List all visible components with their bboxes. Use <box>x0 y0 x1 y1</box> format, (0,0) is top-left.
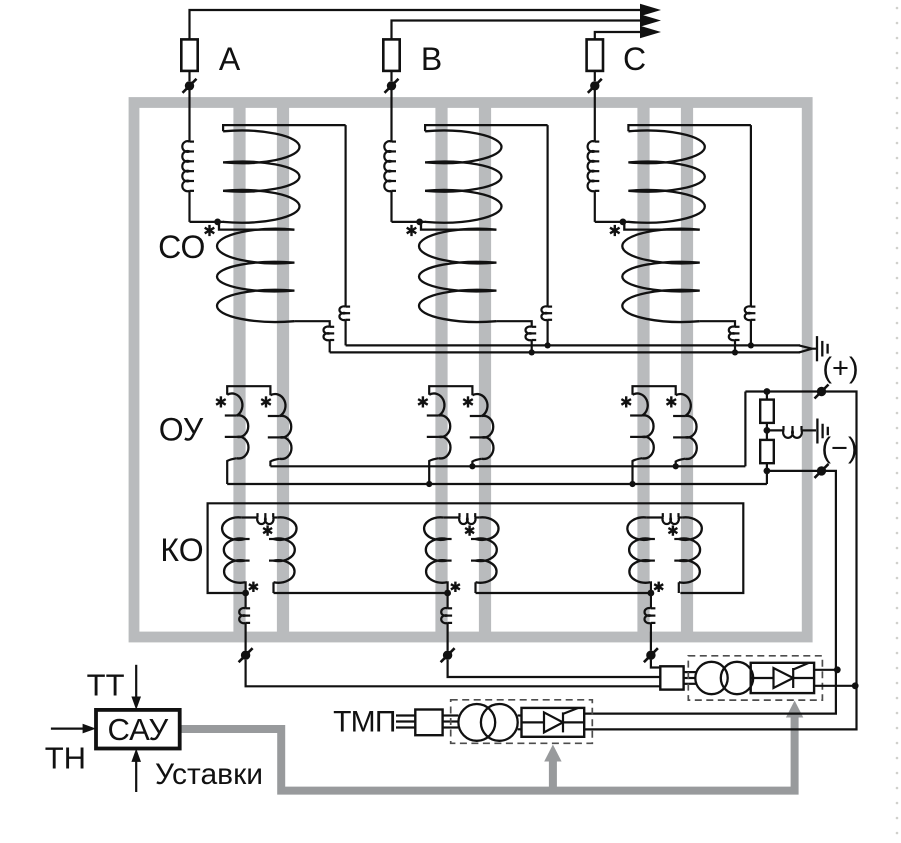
KO B right coil bottom lead <box>474 582 476 593</box>
svg-text:САУ: САУ <box>107 712 168 747</box>
bus junction C upper <box>748 342 754 348</box>
dashed enclosure TMP rectifier <box>451 700 593 744</box>
tap disconnect node A <box>239 648 253 662</box>
polarity mark KO C top <box>668 525 677 535</box>
coil on CO C lower return <box>729 327 735 341</box>
polarity mark CO B <box>407 225 417 236</box>
thyristor symbol VS1 <box>751 663 814 688</box>
OY B right coil bottom lead <box>472 459 481 467</box>
polarity mark CO A <box>205 225 215 236</box>
polarity mark CO C <box>610 225 620 236</box>
rectifier output lower wire <box>814 685 855 687</box>
svg-text:С: С <box>623 41 646 77</box>
KO A tap wire lower <box>245 623 247 651</box>
KO C top wire right part <box>679 516 683 518</box>
transformer T1 circle 2 <box>721 662 753 694</box>
series coil on phase C feed <box>588 141 595 191</box>
wire CO C junction row <box>595 221 630 223</box>
ground symbol (neutral) <box>816 336 818 361</box>
phase A supply line to arrow <box>190 10 641 39</box>
wire phase A feed down <box>188 191 190 222</box>
polarity mark OY A right <box>261 396 271 407</box>
resistor R1 <box>760 400 774 423</box>
OY B left coil <box>429 393 450 458</box>
KO series loop rectangle <box>208 503 744 593</box>
wire CO B upper return from top bar <box>546 125 548 307</box>
OY B right coil <box>472 394 493 459</box>
KO B tap wire upper <box>447 593 449 608</box>
KO A top wire right part <box>273 516 277 518</box>
wire CO B upper return to bus <box>546 320 548 346</box>
wire CO B jog to lower half <box>421 222 496 230</box>
plus output line <box>584 392 856 730</box>
wire CO A upper return to bus <box>345 320 347 346</box>
core leg 2 <box>277 104 289 636</box>
tap wire B to rectifier <box>448 660 661 677</box>
KO winding C left coil <box>627 517 650 582</box>
thyristor box VS1 <box>751 663 814 693</box>
phase C supply line to arrow <box>595 32 640 39</box>
wire node C into core <box>594 90 596 142</box>
transformer T2 circle 1 <box>458 704 495 741</box>
fuse FA (phase A) <box>181 39 197 71</box>
coil on KO C top wire <box>662 518 678 525</box>
svg-text:Уставки: Уставки <box>155 758 263 791</box>
TMP input triple line <box>396 714 415 716</box>
wire CO B lower return <box>496 321 531 327</box>
KO A left coil bottom lead <box>244 582 247 593</box>
voltage divider chain wire <box>766 392 768 471</box>
OY C left coil bottom lead <box>633 458 643 484</box>
coil on CO B upper return <box>541 306 547 320</box>
wire node A into core <box>188 90 190 142</box>
CO working winding phase C lower half <box>622 229 699 322</box>
series coil on phase B feed <box>384 141 391 191</box>
wire CO A lower return to bus <box>329 340 331 352</box>
TMP connector pair <box>518 714 522 716</box>
coil on KO C tap <box>644 608 650 623</box>
wire CO C upper return to bus <box>750 320 752 346</box>
KO winding B left coil <box>424 517 447 582</box>
core leg 1 <box>233 104 245 636</box>
polarity mark OY C right <box>667 396 677 407</box>
junction resistor midpoint <box>764 427 771 434</box>
OY control winding A top bracket <box>227 386 270 395</box>
rectifier input box <box>660 666 683 689</box>
polarity mark OY A left <box>216 396 226 407</box>
KO A top wire <box>241 516 257 518</box>
phase A arrowhead <box>640 4 661 17</box>
bus junction B upper <box>545 342 551 348</box>
fuse FC (phase C) <box>587 39 603 71</box>
coil on CO B lower return <box>526 327 532 341</box>
svg-text:А: А <box>219 41 241 77</box>
control branch to TMP rectifier <box>549 761 557 791</box>
phase B supply line to arrow <box>392 21 641 40</box>
polarity mark KO A top <box>263 525 272 535</box>
svg-text:ОУ: ОУ <box>159 412 204 448</box>
plus terminal node <box>815 385 829 399</box>
thyristor symbol VS2 <box>522 708 585 732</box>
page edge dots <box>896 7 899 835</box>
wire fuse B to node <box>390 71 392 81</box>
polarity mark KO A bottom <box>249 582 258 592</box>
CO working winding phase B top bar <box>425 125 547 131</box>
KO B right coil <box>476 517 499 582</box>
neutral arrow to ground <box>799 345 816 352</box>
wire coil to ground <box>802 429 817 431</box>
OY bus junction B right <box>469 463 475 469</box>
transformer T2 circle 2 <box>481 704 518 741</box>
phase C arrowhead <box>640 26 661 39</box>
minus output line <box>584 471 836 714</box>
wire CO C upper return from top bar <box>750 125 752 307</box>
wire fuse A to node <box>188 71 190 81</box>
setpoint input arrow <box>135 761 137 793</box>
tap disconnect node B <box>441 648 455 662</box>
OY A right coil bottom lead <box>270 459 279 467</box>
CO working winding phase C upper half <box>628 131 704 223</box>
KO B tap wire lower <box>447 623 449 651</box>
OY C left coil <box>633 393 654 458</box>
core leg 6 <box>681 104 693 636</box>
phase B arrowhead <box>640 14 661 27</box>
coil on KO B top wire <box>459 518 475 525</box>
wire CO A lower return <box>294 321 329 327</box>
TMP connector triple line <box>443 714 459 716</box>
wire midpoint to ground <box>767 429 784 431</box>
tap wire A to rectifier <box>246 660 661 686</box>
OY C right coil bottom lead <box>676 459 685 467</box>
junction resistor top <box>764 388 771 395</box>
coil on CO C upper return <box>745 306 751 320</box>
wire CO C lower return to bus <box>734 340 736 352</box>
polarity mark KO C bottom <box>654 582 663 592</box>
polarity mark OY B right <box>463 396 473 407</box>
core leg 4 <box>479 104 491 636</box>
OY bus junction C left <box>629 481 635 487</box>
OY lower bus <box>227 483 767 485</box>
KO B left coil bottom lead <box>446 582 449 593</box>
OY control winding B top bracket <box>429 386 472 395</box>
coil on CO A upper return <box>339 306 345 320</box>
junction KO C tap <box>648 590 655 597</box>
svg-text:КО: КО <box>160 532 203 568</box>
OY control winding C top bracket <box>633 386 676 395</box>
svg-text:СО: СО <box>158 229 205 265</box>
thyristor box VS2 <box>522 708 585 737</box>
KO C right coil <box>679 517 702 582</box>
CO working winding phase B upper half <box>425 131 501 223</box>
junction node CO A <box>214 219 221 226</box>
CO working winding phase A lower half <box>217 229 294 322</box>
OY C right coil <box>676 394 697 459</box>
KO C tap wire lower <box>650 623 652 651</box>
OY A right coil <box>270 394 291 459</box>
svg-text:ТН: ТН <box>45 741 86 776</box>
svg-text:ТМП: ТМП <box>333 706 395 739</box>
polarity mark OY C left <box>621 396 631 407</box>
TH input arrow <box>51 727 85 729</box>
wire phase B feed down <box>390 191 392 222</box>
KO C right coil bottom lead <box>678 582 680 593</box>
wire CO A junction row <box>190 221 225 223</box>
wire OY lower bus to minus node <box>766 471 768 484</box>
tap wire C to rectifier <box>651 660 660 668</box>
KO A right coil bottom lead <box>272 582 274 593</box>
wire CO A upper return from top bar <box>345 125 347 307</box>
wire CO C jog to lower half <box>624 222 699 230</box>
coil on KO A top wire <box>257 518 273 525</box>
disconnect node phase A <box>183 79 197 93</box>
svg-text:(+): (+) <box>822 353 858 385</box>
coil on KO B tap <box>441 608 447 623</box>
OY upper bus <box>270 465 745 467</box>
upper neutral bus <box>346 344 800 346</box>
minus terminal node <box>815 464 829 478</box>
dashed enclosure KO rectifier <box>688 656 822 700</box>
transformer T1 circle 1 <box>695 662 727 694</box>
magnetic core frame <box>134 103 807 638</box>
TT input arrow <box>135 665 137 698</box>
junction output upper <box>834 666 841 673</box>
KO C left coil bottom lead <box>649 582 652 593</box>
KO B top wire <box>443 516 459 518</box>
coil on midpoint ground lead <box>783 430 802 437</box>
series coil on phase A feed <box>182 141 189 191</box>
wire CO B lower return to bus <box>531 340 533 352</box>
junction KO B tap <box>444 590 451 597</box>
wire OY upper bus to plus rail <box>744 392 746 467</box>
core leg 5 <box>637 104 649 636</box>
polarity mark OY B left <box>418 396 428 407</box>
KO loop bottom segment B-C <box>476 592 651 594</box>
KO C top wire <box>647 516 663 518</box>
wire CO A jog to lower half <box>219 222 294 230</box>
wire phase C feed down <box>594 191 596 222</box>
polarity mark KO B bottom <box>451 582 460 592</box>
junction output lower <box>852 682 859 689</box>
KO A right coil <box>274 517 297 582</box>
KO B top wire right part <box>475 516 479 518</box>
coil on CO A lower return <box>324 327 330 341</box>
svg-text:(−): (−) <box>821 433 857 465</box>
OY A left coil bottom lead <box>227 458 237 484</box>
svg-text:В: В <box>421 41 442 77</box>
resistor R2 <box>760 440 774 463</box>
KO C tap wire upper <box>650 593 652 608</box>
bus junction C lower <box>732 349 738 355</box>
CO working winding phase B lower half <box>419 229 496 322</box>
KO A tap wire upper <box>245 593 247 608</box>
bus junction B lower <box>529 349 535 355</box>
polarity mark KO B top <box>465 525 474 535</box>
CAY control unit box <box>96 710 180 749</box>
gray arrowhead into KO rectifier block <box>786 701 803 718</box>
TMP input box <box>415 710 442 736</box>
OY B left coil bottom lead <box>429 458 439 484</box>
junction KO A tap <box>242 590 249 597</box>
ground symbol (midpoint) <box>816 419 818 444</box>
gray arrowhead into TMP block <box>544 745 561 762</box>
connector lines to transformer <box>684 671 696 673</box>
control signal path from CAY <box>180 716 795 791</box>
wire CO C lower return <box>700 321 735 327</box>
CO working winding phase A upper half <box>223 131 299 223</box>
coil on KO A tap <box>239 608 245 623</box>
wire CO B junction row <box>392 221 427 223</box>
disconnect node phase C <box>588 79 602 93</box>
wire node B into core <box>390 90 392 142</box>
KO loop bottom segment A-B <box>274 592 448 594</box>
wire fuse C to node <box>594 71 596 81</box>
OY bus junction C right <box>673 463 679 469</box>
rectifier output upper wire <box>814 669 837 671</box>
svg-text:ТТ: ТТ <box>87 668 125 703</box>
disconnect node phase B <box>385 79 399 93</box>
fuse FB (phase B) <box>383 39 399 71</box>
tap disconnect node C <box>644 648 658 662</box>
CO working winding phase C top bar <box>628 125 751 131</box>
lower neutral bus <box>330 351 800 353</box>
OY A left coil <box>227 393 248 458</box>
KO winding A left coil <box>222 517 245 582</box>
core leg 3 <box>435 104 447 636</box>
junction resistor bottom <box>764 468 771 475</box>
junction node CO B <box>416 219 423 226</box>
CO working winding phase A top bar <box>223 125 346 131</box>
junction node CO C <box>620 219 627 226</box>
OY bus junction B left <box>426 481 432 487</box>
